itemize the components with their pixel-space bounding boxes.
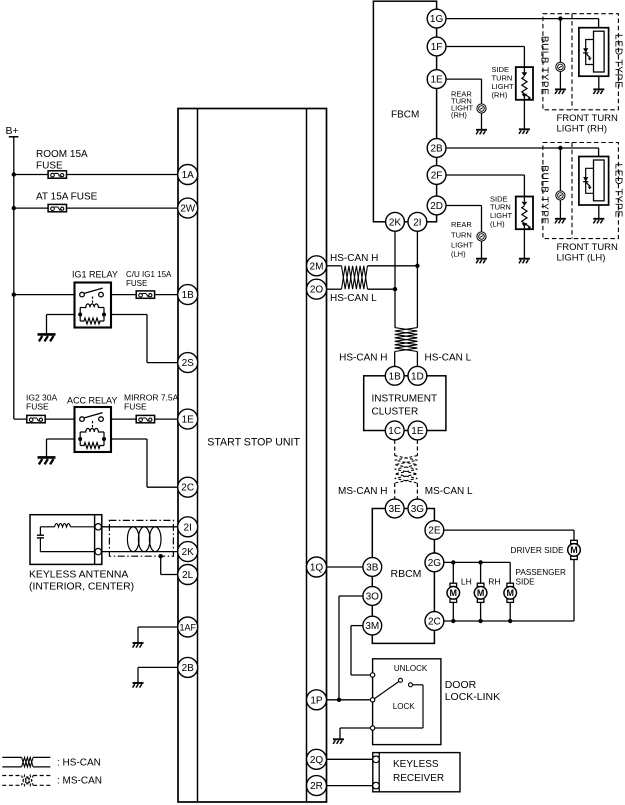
connector unit 2R xyxy=(307,776,327,796)
junction dot 2G bus RH xyxy=(478,560,482,564)
connector unit 1Q xyxy=(307,557,327,577)
wire bulb RH to ground xyxy=(559,72,561,90)
wire 2D to rear turn LH xyxy=(446,205,482,207)
svg-text:IG1 RELAY: IG1 RELAY xyxy=(72,270,118,280)
svg-text:2O: 2O xyxy=(310,285,324,296)
svg-text:FBCM: FBCM xyxy=(391,110,419,121)
junction dot shield tap xyxy=(159,554,163,558)
wire twist to 1D xyxy=(416,352,418,367)
bulb symbol rear turn RH xyxy=(477,104,486,113)
wire side turn RH to ground xyxy=(523,100,525,130)
wire 2B to front turn LH xyxy=(446,147,599,149)
wire B+ bus vertical xyxy=(13,137,15,419)
start stop unit right column divider xyxy=(306,109,308,803)
wire dashed to 3G xyxy=(416,483,418,499)
connector FBCM 1G xyxy=(427,9,446,28)
connector FBCM 2K xyxy=(386,212,405,231)
svg-text:C/U IG1 15A: C/U IG1 15A xyxy=(126,270,172,279)
svg-text:RECEIVER: RECEIVER xyxy=(393,773,444,784)
capacitor antenna xyxy=(37,534,44,536)
svg-text:DRIVER SIDE: DRIVER SIDE xyxy=(510,545,563,555)
svg-text:UNLOCK: UNLOCK xyxy=(394,664,428,673)
wire ACC coil to 2C xyxy=(111,438,147,440)
keyless receiver box xyxy=(373,753,460,792)
bulb symbol rear turn LH xyxy=(477,232,486,241)
legend HS-CAN wires xyxy=(2,756,21,758)
bulb symbol front turn RH xyxy=(556,62,565,71)
fuse IG2 30A xyxy=(27,415,45,422)
keyless antenna connector strip xyxy=(94,515,96,565)
motor driver side xyxy=(568,540,581,559)
connector RBCM 3M xyxy=(363,616,382,635)
wire ACC relay to fuse to 1E xyxy=(103,418,178,420)
ground 2B xyxy=(133,683,144,688)
receiver terminal lower xyxy=(373,782,380,789)
wire drop RH motor xyxy=(480,562,482,583)
svg-text:M: M xyxy=(450,588,458,598)
relay IG1 xyxy=(75,283,112,328)
svg-text:2I: 2I xyxy=(184,522,192,533)
connector unit 1P xyxy=(307,690,327,710)
svg-text:3B: 3B xyxy=(366,563,379,574)
wire shield to 2L xyxy=(160,556,162,574)
instrument cluster box xyxy=(364,376,446,431)
contact unlock xyxy=(370,673,374,677)
svg-text:START STOP UNIT: START STOP UNIT xyxy=(207,437,300,449)
connector RBCM 3G xyxy=(408,499,427,518)
switch blade door lock xyxy=(375,681,400,698)
connector unit 1E xyxy=(178,409,198,429)
svg-text:2C: 2C xyxy=(181,483,194,494)
svg-text:1Q: 1Q xyxy=(310,563,324,574)
svg-text:M: M xyxy=(570,545,578,555)
motor RH xyxy=(474,583,487,602)
motor LH xyxy=(447,583,460,602)
ground rear turn LH xyxy=(476,259,487,264)
svg-text:CLUSTER: CLUSTER xyxy=(372,407,419,418)
wire 1E dashed down xyxy=(416,440,418,456)
wire IG1 coil to ground xyxy=(47,314,75,316)
junction dot HS-CAN L xyxy=(393,287,397,291)
wire HS-CAN down right xyxy=(416,266,418,328)
svg-text:(INTERIOR, CENTER): (INTERIOR, CENTER) xyxy=(29,582,134,593)
wire 2I down to HS-CAN H xyxy=(416,231,418,266)
led lamp front turn LH xyxy=(579,157,609,206)
wire drop passenger motor xyxy=(509,562,511,583)
junction dot 1P 3O xyxy=(337,698,341,702)
contact lock xyxy=(370,698,374,702)
connector FBCM 2D xyxy=(427,196,446,215)
legend HS-CAN twist xyxy=(22,757,33,767)
antenna terminal upper xyxy=(95,524,101,530)
wire 2M to twist xyxy=(327,265,342,267)
fuse ROOM 15A xyxy=(48,171,66,178)
wire led RH to ground xyxy=(598,76,600,89)
svg-text:2W: 2W xyxy=(180,204,196,215)
start stop unit left column divider xyxy=(197,109,199,803)
svg-text:SIDE: SIDE xyxy=(516,578,536,587)
svg-text:1AF: 1AF xyxy=(179,623,196,633)
svg-text:3E: 3E xyxy=(389,504,402,515)
svg-text:1A: 1A xyxy=(182,170,195,181)
svg-text:2I: 2I xyxy=(413,217,421,228)
connector unit 1AF xyxy=(178,617,198,637)
svg-text:2G: 2G xyxy=(428,558,442,569)
wire twist to 1B xyxy=(394,352,396,367)
svg-text:2F: 2F xyxy=(431,171,443,182)
svg-text:LOCK-LINK: LOCK-LINK xyxy=(445,691,500,703)
svg-text:LED TYPE: LED TYPE xyxy=(612,34,623,89)
wire 2R to receiver xyxy=(327,785,373,787)
svg-text:FUSE: FUSE xyxy=(26,402,49,412)
connector cluster 1E xyxy=(408,421,427,440)
wire at fuse to 2W xyxy=(14,207,178,209)
wire antenna coil left xyxy=(40,526,54,528)
svg-text:FRONT TURN: FRONT TURN xyxy=(557,242,619,253)
connector RBCM 3O xyxy=(363,587,382,606)
svg-text:1P: 1P xyxy=(310,695,323,706)
connector unit 1A xyxy=(178,165,198,185)
svg-text:: HS-CAN: : HS-CAN xyxy=(57,757,101,768)
svg-text:DOOR: DOOR xyxy=(445,679,477,691)
svg-text:2B: 2B xyxy=(430,144,443,155)
junction dot 2C bus 2 xyxy=(478,619,482,623)
svg-text:(RH): (RH) xyxy=(451,111,467,120)
svg-text:HS-CAN L: HS-CAN L xyxy=(330,293,377,304)
keyless antenna box xyxy=(30,515,102,565)
svg-text:ACC RELAY: ACC RELAY xyxy=(67,396,117,406)
wire led LH to ground xyxy=(598,205,600,219)
svg-text:2E: 2E xyxy=(428,526,441,537)
wire 1E to rear turn RH xyxy=(446,78,482,80)
svg-text:HS-CAN H: HS-CAN H xyxy=(339,353,387,364)
connector FBCM 2F xyxy=(427,166,446,185)
svg-text:FRONT TURN: FRONT TURN xyxy=(557,113,619,124)
connector FBCM 2B xyxy=(427,139,446,158)
junction dot bulb branch RH xyxy=(558,16,562,20)
junction dot B+ ig1 relay xyxy=(12,292,16,296)
wire RH motor to bus xyxy=(480,602,482,621)
svg-text:2C: 2C xyxy=(428,617,441,628)
wire driver motor down xyxy=(573,560,575,621)
relay ACC xyxy=(75,407,112,452)
wire 1F to side turn RH xyxy=(446,46,524,48)
junction dot 2C bus 1 xyxy=(451,619,455,623)
FBCM box xyxy=(373,1,436,222)
wire 3O to lock-link xyxy=(339,595,363,597)
twisted pair MS-CAN vertical xyxy=(395,456,418,483)
svg-text:FUSE: FUSE xyxy=(36,161,63,172)
svg-text:HS-CAN L: HS-CAN L xyxy=(425,353,472,364)
svg-text:BULB TYPE: BULB TYPE xyxy=(539,36,550,95)
ground IG1 relay xyxy=(38,334,56,341)
ground bulb front turn RH xyxy=(555,89,566,94)
wire antenna coil right xyxy=(71,526,95,528)
side turn light RH xyxy=(516,67,533,100)
connector RBCM 2G xyxy=(425,553,444,572)
motor passenger side xyxy=(504,583,517,602)
svg-text:1C: 1C xyxy=(388,426,401,437)
svg-text:LOCK: LOCK xyxy=(393,702,415,711)
junction dot 2G bus LH xyxy=(451,560,455,564)
wire 2B to ground xyxy=(138,666,178,668)
ground side turn LH xyxy=(519,259,530,264)
side turn light LH xyxy=(516,197,533,230)
connector unit 2B xyxy=(178,657,198,677)
svg-text:1F: 1F xyxy=(431,42,443,53)
wire 1G to front turn RH xyxy=(446,18,599,20)
svg-text:REAR: REAR xyxy=(451,220,472,229)
wire dashed to 3E xyxy=(394,483,396,499)
connector unit 1B xyxy=(178,285,198,305)
wire bulb branch RH xyxy=(559,19,561,63)
svg-text:3O: 3O xyxy=(366,592,380,603)
dashed divider RH xyxy=(571,14,573,110)
ground led front turn LH xyxy=(593,219,604,224)
fuse C/U IG1 15A xyxy=(136,291,154,298)
connector unit 2I xyxy=(178,517,198,537)
svg-text:B+: B+ xyxy=(6,125,19,137)
svg-text:LIGHT (LH): LIGHT (LH) xyxy=(557,253,606,264)
shielded cable loop 1 xyxy=(127,527,139,552)
svg-text:2M: 2M xyxy=(310,261,324,272)
junction dot 2C bus 3 xyxy=(508,619,512,623)
junction dot HS-CAN H xyxy=(415,264,419,268)
inductor keyless antenna coil xyxy=(55,524,71,527)
svg-text:BULB TYPE: BULB TYPE xyxy=(539,165,550,224)
wire bottom contact xyxy=(375,727,423,729)
connector unit 2K xyxy=(178,542,198,562)
fuse MIRROR 7.5A xyxy=(136,415,154,422)
keyless receiver strip xyxy=(378,753,380,792)
wire bottom contact to ground xyxy=(340,727,370,729)
svg-text:1B: 1B xyxy=(389,371,402,382)
ground side turn RH xyxy=(519,129,530,134)
connector RBCM 3B xyxy=(363,558,382,577)
svg-text:MS-CAN L: MS-CAN L xyxy=(425,486,473,497)
legend MS-CAN twist xyxy=(22,776,33,786)
svg-text:M: M xyxy=(506,588,514,598)
connector FBCM 1E xyxy=(427,70,446,89)
connector unit 2W xyxy=(178,198,198,218)
wire B+ to IG1 relay xyxy=(14,294,80,296)
wire antenna to 2K xyxy=(101,551,178,553)
wire HS-CAN down left xyxy=(394,289,396,327)
svg-text:LED TYPE: LED TYPE xyxy=(612,163,623,218)
connector cluster 1D xyxy=(408,366,427,385)
connector unit 2S xyxy=(178,353,198,373)
wire IG1 relay to fuse to 1B xyxy=(103,294,178,296)
dashed box bulb/led type LH xyxy=(543,143,619,239)
connector RBCM 3E xyxy=(385,499,404,518)
svg-text:1E: 1E xyxy=(430,75,443,86)
wire B+ to ACC relay xyxy=(14,418,80,420)
svg-text:2K: 2K xyxy=(389,217,402,228)
wire 1AF to ground xyxy=(138,626,178,628)
connector unit 2Q xyxy=(307,749,327,769)
dashed divider LH xyxy=(571,143,573,239)
svg-text:KEYLESS ANTENNA: KEYLESS ANTENNA xyxy=(29,570,128,581)
shielded cable loop 2 xyxy=(138,527,150,552)
wire bulb LH to ground xyxy=(559,200,561,219)
wire passenger motor to bus xyxy=(509,602,511,621)
svg-text:HS-CAN H: HS-CAN H xyxy=(330,253,378,264)
ground led front turn RH xyxy=(593,89,604,94)
wire 2C bus xyxy=(444,620,574,622)
wire bulb branch LH xyxy=(559,148,561,191)
legend MS-CAN wires xyxy=(2,775,21,777)
ground ACC relay xyxy=(38,457,56,464)
svg-text:(RH): (RH) xyxy=(492,90,508,99)
wire drop LH motor xyxy=(452,562,454,583)
wire ACC coil to ground xyxy=(47,438,75,440)
RBCM box xyxy=(372,509,434,644)
wire 2G bus xyxy=(444,561,510,563)
wire 1C dashed down xyxy=(394,440,396,456)
wire 2O to twist xyxy=(327,288,342,290)
connector unit 2M xyxy=(307,256,327,276)
junction dot B+ room fuse xyxy=(12,172,16,176)
B+ terminal tick xyxy=(9,136,19,138)
door lock-link box xyxy=(373,659,441,745)
ground 1AF xyxy=(133,643,144,648)
bulb symbol front turn LH xyxy=(556,191,565,200)
svg-text:1E: 1E xyxy=(411,426,424,437)
svg-text:FUSE: FUSE xyxy=(126,279,147,288)
svg-text:2S: 2S xyxy=(182,358,195,369)
dashed box bulb/led type RH xyxy=(543,14,619,110)
svg-text:3G: 3G xyxy=(411,504,425,515)
receiver terminal upper xyxy=(373,756,380,763)
antenna terminal lower xyxy=(95,548,101,554)
twisted pair HS-CAN vertical xyxy=(395,328,418,352)
svg-text:1E: 1E xyxy=(182,415,195,426)
twisted pair HS-CAN horizontal xyxy=(342,266,368,289)
led lamp front turn RH xyxy=(579,28,609,76)
ground door lock-link xyxy=(333,739,344,744)
ground bulb front turn LH xyxy=(555,219,566,224)
wire 1Q to 3B xyxy=(327,566,363,568)
svg-text:: MS-CAN: : MS-CAN xyxy=(57,776,102,787)
svg-text:1G: 1G xyxy=(430,14,444,25)
connector unit 2L xyxy=(178,565,198,585)
wire 2K down to HS-CAN L xyxy=(394,231,396,289)
junction dot B+ at fuse xyxy=(12,206,16,210)
svg-text:AT 15A FUSE: AT 15A FUSE xyxy=(36,191,98,202)
svg-text:2D: 2D xyxy=(430,201,443,212)
connector FBCM 1F xyxy=(427,37,446,56)
connector cluster 1C xyxy=(385,421,404,440)
connector unit 2O xyxy=(307,279,327,299)
svg-text:TURN: TURN xyxy=(451,231,472,240)
connector RBCM 2C xyxy=(425,612,444,631)
junction dot bulb branch LH xyxy=(558,146,562,150)
svg-text:(LH): (LH) xyxy=(451,249,466,258)
svg-text:LIGHT (RH): LIGHT (RH) xyxy=(557,124,608,135)
connector RBCM 2E xyxy=(425,521,444,540)
svg-text:LIGHT: LIGHT xyxy=(451,240,474,249)
svg-text:FUSE: FUSE xyxy=(124,402,147,412)
ground rear turn RH xyxy=(476,130,487,135)
svg-text:2B: 2B xyxy=(182,663,195,674)
connector cluster 1B xyxy=(385,366,404,385)
svg-text:3M: 3M xyxy=(365,621,379,632)
switch pole upper xyxy=(399,678,403,682)
svg-text:PASSENGER: PASSENGER xyxy=(516,568,566,577)
wire switch to lock side xyxy=(413,684,424,686)
shielded cable box (dash-dot) xyxy=(109,520,173,556)
svg-text:1D: 1D xyxy=(411,371,424,382)
wire antenna capacitor bottom xyxy=(39,538,41,552)
wire 3M to lock-link xyxy=(351,625,363,627)
wire LH motor to bus xyxy=(452,602,454,621)
svg-text:2K: 2K xyxy=(182,547,195,558)
wire 2F to side turn LH xyxy=(446,174,524,176)
wire rear turn LH to ground xyxy=(481,241,483,259)
connector FBCM 2I xyxy=(408,212,427,231)
svg-text:2L: 2L xyxy=(182,570,194,581)
switch pole lower xyxy=(409,683,413,687)
svg-text:2Q: 2Q xyxy=(310,755,324,766)
wire rear turn RH to ground xyxy=(481,113,483,130)
svg-text:M: M xyxy=(477,588,485,598)
svg-text:ROOM 15A: ROOM 15A xyxy=(36,149,88,160)
svg-text:(LH): (LH) xyxy=(490,220,505,229)
svg-text:RBCM: RBCM xyxy=(391,568,422,580)
shielded cable loop 3 xyxy=(149,527,161,552)
fuse AT 15A xyxy=(48,204,66,211)
svg-text:INSTRUMENT: INSTRUMENT xyxy=(372,394,438,405)
wire 2E to driver motor xyxy=(444,529,574,531)
wire 1P to lock contact xyxy=(327,699,371,701)
connector unit 2C xyxy=(178,477,198,497)
wire room fuse to 1A xyxy=(14,174,178,176)
wire 2Q to receiver xyxy=(327,758,373,760)
svg-text:RH: RH xyxy=(488,577,500,587)
wire IG1 coil to 2S xyxy=(111,314,147,316)
svg-text:2R: 2R xyxy=(310,781,323,792)
wire antenna to 2I xyxy=(101,526,178,528)
svg-text:LH: LH xyxy=(461,577,472,587)
svg-text:1B: 1B xyxy=(182,290,195,301)
wire side turn LH to ground xyxy=(523,229,525,259)
svg-text:MS-CAN H: MS-CAN H xyxy=(338,486,387,497)
start stop unit box xyxy=(178,109,327,803)
svg-text:KEYLESS: KEYLESS xyxy=(393,759,439,770)
contact ground side xyxy=(370,726,374,730)
